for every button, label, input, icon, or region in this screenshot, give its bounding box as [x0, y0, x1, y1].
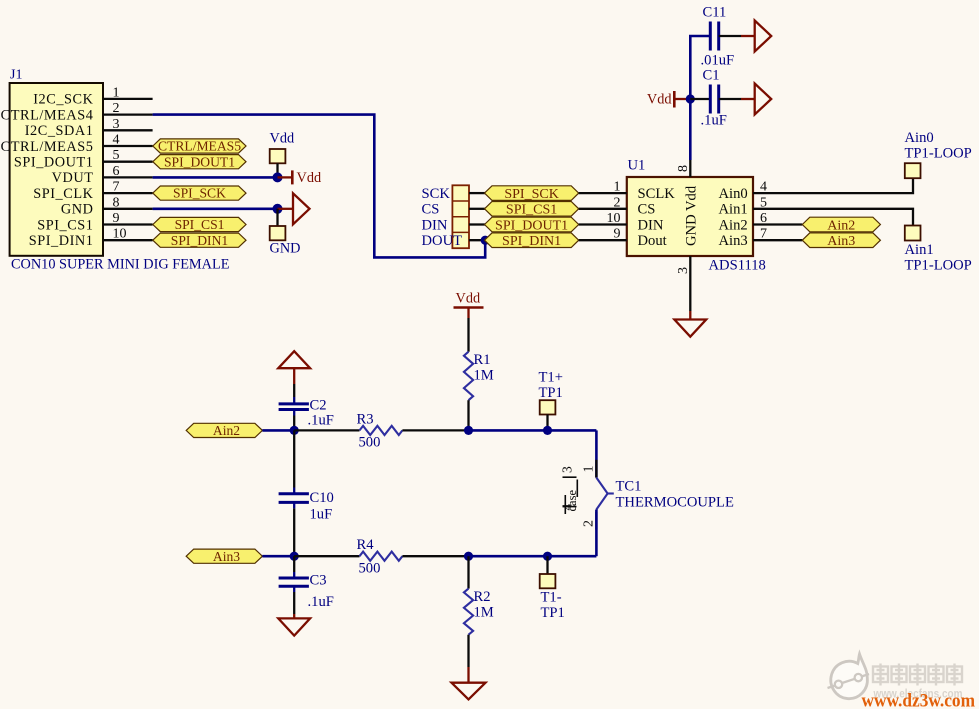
thermocouple TC1 pin1 lead	[595, 460, 597, 478]
net label Ain2 (U1 side)	[802, 217, 880, 232]
svg-text:Ain3: Ain3	[719, 233, 748, 249]
svg-text:Vdd: Vdd	[456, 291, 481, 307]
wire J1 pin8 to GND junction	[153, 208, 278, 211]
svg-text:TP1-LOOP: TP1-LOOP	[905, 146, 972, 162]
svg-text:2: 2	[113, 101, 120, 116]
svg-text:SPI_DIN1: SPI_DIN1	[171, 233, 228, 248]
wire C1 to power arrow	[719, 98, 741, 100]
resistor R2	[464, 589, 473, 635]
power port GND arrow	[278, 208, 294, 210]
thermocouple TC1 right leg top	[595, 430, 598, 477]
svg-text:T1+: T1+	[539, 370, 563, 386]
svg-text:Ain1: Ain1	[905, 242, 934, 258]
power arrow right of C1	[755, 84, 772, 115]
wire test point to junction	[276, 163, 278, 177]
op-amp U1 body	[627, 177, 753, 256]
svg-text:SPI_DIN1: SPI_DIN1	[502, 234, 561, 249]
wire Ain2 junction down to C10	[293, 430, 295, 487]
svg-text:1: 1	[582, 466, 597, 473]
connector J1 pin 1 lead	[103, 98, 153, 100]
wire arrow to C2	[293, 368, 295, 384]
capacitor C10	[279, 492, 309, 495]
svg-text:3: 3	[676, 267, 691, 274]
wire port cell to net label	[469, 223, 485, 225]
svg-text:1: 1	[113, 85, 120, 100]
wire junction to R3	[294, 429, 359, 431]
wire junction to R2	[467, 556, 469, 588]
svg-text:SPI_DOUT1: SPI_DOUT1	[14, 155, 94, 171]
svg-text:Ain0: Ain0	[719, 186, 748, 202]
capacitor C11	[709, 22, 712, 51]
test point T1- square	[540, 574, 556, 588]
svg-text:DIN: DIN	[638, 217, 664, 233]
svg-text:C3: C3	[310, 573, 327, 589]
U1 pin 8 lead	[689, 160, 691, 177]
svg-text:Vdd: Vdd	[297, 170, 322, 186]
connector J1 pin 2 lead	[103, 113, 153, 115]
connector J1 pin 4 lead	[103, 145, 153, 147]
svg-text:DIN: DIN	[422, 217, 448, 233]
net label CTRL/MEAS5 (J1 side)	[153, 139, 246, 153]
wire U1 pin4 to TP Ain0	[753, 178, 913, 193]
svg-text:5: 5	[113, 148, 120, 163]
connector J1 pin 10 lead	[103, 239, 153, 241]
wire C2 to Ain2 junction	[293, 410, 295, 416]
wire port cell to net label	[469, 208, 485, 210]
svg-text:SPI_DOUT1: SPI_DOUT1	[164, 154, 235, 169]
capacitor C2	[279, 402, 309, 405]
wire U1 pin3 to ground	[689, 311, 691, 320]
wire R3 to R1 junction	[402, 429, 468, 431]
svg-text:1M: 1M	[474, 368, 494, 384]
svg-text:T1-: T1-	[541, 590, 562, 606]
svg-text:C2: C2	[310, 398, 327, 414]
wire DOUT cell to junction	[469, 239, 485, 241]
wire port cell to net label	[469, 192, 485, 194]
svg-text:8: 8	[676, 165, 691, 172]
wire J1 pin6 to Vdd junction	[153, 176, 278, 179]
U1 pin 3 lead	[689, 256, 691, 311]
net label SPI_CS1 (J1 side)	[153, 217, 246, 231]
wire net label to U1 pin 1	[579, 192, 627, 194]
thermocouple TC1 case pin bracket 3	[563, 476, 577, 478]
wire C3 to ground arrow	[293, 586, 295, 592]
svg-text:.1uF: .1uF	[308, 594, 334, 610]
svg-text:THERMOCOUPLE: THERMOCOUPLE	[616, 495, 734, 511]
svg-text:TP1: TP1	[541, 605, 565, 621]
net label SPI_DIN1 (J1 side)	[153, 233, 246, 247]
svg-text:10: 10	[113, 227, 127, 242]
svg-text:CON10 SUPER MINI DIG FEMALE: CON10 SUPER MINI DIG FEMALE	[11, 257, 230, 273]
junction T1+	[543, 426, 552, 435]
test point T1+ square	[540, 400, 556, 414]
wire T1- junction to square	[546, 556, 548, 574]
net label SPI_DOUT1 (J1 side)	[153, 155, 246, 169]
wire T1+ square to junction	[546, 415, 548, 431]
svg-text:SPI_CS1: SPI_CS1	[37, 217, 93, 233]
wire Ain3 label to junction	[262, 555, 294, 558]
svg-text:DOUT: DOUT	[422, 233, 463, 249]
svg-text:GND Vdd: GND Vdd	[684, 185, 700, 246]
svg-text:SCLK: SCLK	[638, 186, 676, 202]
junction at J1 pin8 GND	[273, 204, 283, 214]
svg-text:C10: C10	[310, 490, 334, 506]
connector J1 pin 7 lead	[103, 192, 153, 194]
wire C10 to Ain3 junction	[293, 502, 295, 508]
svg-text:Vdd: Vdd	[270, 131, 295, 147]
wire R1 to row junction	[467, 400, 469, 430]
svg-text:SPI_CS1: SPI_CS1	[506, 203, 557, 218]
ground arrow below R2	[452, 683, 486, 700]
connector J1 body	[10, 83, 103, 256]
svg-text:TC1: TC1	[616, 479, 642, 495]
test point TP1-LOOP Ain1 square	[905, 226, 921, 241]
svg-text:1uF: 1uF	[310, 507, 333, 523]
net label SPI_SCK (U1 side)	[485, 186, 579, 201]
svg-text:SPI_DOUT1: SPI_DOUT1	[495, 218, 568, 233]
svg-text:Dout: Dout	[638, 233, 667, 249]
svg-text:500: 500	[359, 561, 381, 577]
svg-text:SPI_SCK: SPI_SCK	[173, 186, 226, 201]
thermocouple TC1 case pin bracket 4	[563, 506, 577, 508]
wire Ain2 label to junction	[262, 429, 294, 432]
wire R4 to R2 junction	[402, 555, 468, 557]
svg-text:SCK: SCK	[422, 186, 451, 202]
svg-text:Ain3: Ain3	[827, 234, 855, 249]
svg-text:SPI_SCK: SPI_SCK	[504, 187, 558, 202]
connector J1 pin 5 lead	[103, 161, 153, 163]
svg-text:J1: J1	[10, 68, 22, 83]
svg-text:I2C_SCK: I2C_SCK	[33, 92, 93, 108]
svg-text:Ain2: Ain2	[827, 218, 855, 233]
svg-text:C1: C1	[703, 68, 720, 84]
svg-text:1M: 1M	[474, 605, 494, 621]
svg-text:ADS1118: ADS1118	[709, 258, 766, 274]
svg-text:.1uF: .1uF	[308, 413, 334, 429]
test point square above Vdd junction	[270, 149, 286, 163]
connector J1 pin 6 lead	[103, 176, 153, 178]
svg-text:CTRL/MEAS5: CTRL/MEAS5	[1, 139, 94, 155]
thermocouple TC1 pin2 lead	[595, 512, 597, 530]
resistor R3	[360, 426, 403, 435]
wire net label to U1 pin 2	[579, 208, 627, 210]
svg-text:500: 500	[359, 435, 381, 451]
svg-text:C11: C11	[703, 5, 727, 21]
junction R4/R2	[464, 552, 473, 561]
capacitor C1	[709, 85, 712, 114]
junction at J1 pin6 Vdd	[273, 172, 283, 182]
svg-text:GND: GND	[61, 202, 94, 218]
svg-text:www.dz3w.com: www.dz3w.com	[862, 692, 976, 709]
port block SCK/CS/DIN/DOUT body	[452, 185, 469, 248]
svg-text:CTRL/MEAS4: CTRL/MEAS4	[1, 107, 94, 123]
svg-text:CTRL/MEAS5: CTRL/MEAS5	[158, 139, 241, 154]
svg-text:TP1-LOOP: TP1-LOOP	[905, 258, 972, 274]
wire Ain3 junction to C3	[293, 556, 295, 572]
junction at DOUT / SPI_DIN1	[481, 236, 490, 245]
svg-text:.01uF: .01uF	[701, 53, 735, 69]
svg-text:Ain3: Ain3	[213, 549, 240, 564]
net label SPI_DIN1 (U1 side)	[485, 233, 579, 248]
svg-text:I2C_SDA1: I2C_SDA1	[25, 123, 94, 139]
svg-text:9: 9	[113, 211, 120, 226]
svg-text:3: 3	[113, 117, 120, 132]
net label Ain3 (U1 side)	[802, 233, 880, 248]
wire U1 pin5 to TP Ain1	[753, 209, 913, 226]
svg-text:CS: CS	[638, 202, 656, 218]
wire net label to U1 pin 10	[579, 223, 627, 225]
connector J1 pin 9 lead	[103, 223, 153, 225]
resistor R1	[464, 352, 473, 401]
wire R2 to ground	[467, 635, 469, 667]
wire C11 to power arrow	[719, 35, 741, 37]
net label SPI_SCK (J1 side)	[153, 186, 246, 200]
wire junction to GND test point	[276, 209, 278, 226]
svg-text:Vdd: Vdd	[647, 92, 672, 108]
svg-text:R3: R3	[357, 412, 374, 428]
capacitor C3	[279, 577, 309, 580]
svg-text:SPI_CS1: SPI_CS1	[175, 217, 225, 232]
wire junction to C1	[690, 98, 710, 100]
svg-text:3: 3	[560, 466, 575, 473]
ground symbol below U1	[674, 320, 706, 337]
svg-text:TP1: TP1	[539, 385, 563, 401]
wire U1 pin6 to Ain2 label	[753, 223, 802, 225]
net label SPI_DOUT1 (U1 side)	[485, 217, 579, 232]
svg-text:GND: GND	[270, 241, 301, 257]
wire top rail corner to C11	[690, 36, 710, 160]
svg-text:6: 6	[113, 164, 120, 179]
svg-text:CS: CS	[422, 202, 440, 218]
wire R2 junction to T1- junction	[469, 555, 548, 558]
junction R1/R3	[464, 426, 473, 435]
wire T1- junction to TC1	[548, 555, 597, 558]
net label SPI_CS1 (U1 side)	[485, 202, 579, 217]
svg-text:7: 7	[113, 180, 120, 195]
svg-text:8: 8	[113, 195, 120, 210]
thermocouple TC1 right leg bottom	[595, 510, 598, 557]
junction C1/C11/Vdd	[686, 94, 695, 103]
svg-text:Ain2: Ain2	[213, 423, 240, 438]
wire R1 junction to T1+ junction	[469, 429, 548, 432]
resistor R4	[360, 552, 403, 561]
svg-text:Ain1: Ain1	[719, 202, 748, 218]
watermark logo and site text	[828, 654, 976, 709]
svg-text:2: 2	[582, 520, 597, 527]
ground arrow below C3	[278, 618, 310, 635]
wire U1 pin7 to Ain3 label	[753, 239, 802, 241]
net label Ain3 (filter side)	[186, 549, 262, 563]
svg-text:.1uF: .1uF	[701, 113, 727, 129]
svg-text:4: 4	[113, 133, 120, 148]
svg-text:Ain0: Ain0	[905, 130, 934, 146]
svg-text:R2: R2	[474, 589, 491, 605]
junction Ain3/C10/C3	[290, 552, 299, 561]
svg-text:R4: R4	[357, 537, 375, 553]
connector J1 pin 8 lead	[103, 208, 153, 210]
svg-text:U1: U1	[628, 158, 646, 174]
connector J1 pin 3 lead	[103, 129, 153, 131]
svg-text:R1: R1	[474, 352, 491, 368]
thermocouple TC1 chevron	[596, 478, 607, 510]
svg-text:VDUT: VDUT	[52, 170, 94, 186]
junction Ain2/C2/C10	[290, 426, 299, 435]
wire T1+ junction to TC1	[548, 429, 597, 432]
test point square below GND junction	[270, 226, 286, 240]
power port Vdd bar at pin6	[278, 176, 293, 178]
wire net label to U1 pin 9	[579, 239, 627, 241]
wire junction to R4	[294, 555, 359, 557]
wire CTRL/MEAS4 net from J1 pin2 to DOUT junction	[153, 115, 486, 258]
svg-text:SPI_CLK: SPI_CLK	[33, 186, 93, 202]
svg-text:Ain2: Ain2	[719, 217, 748, 233]
test point TP1-LOOP Ain0 square	[905, 163, 921, 178]
net label Ain2 (filter side)	[186, 423, 262, 437]
power arrow above C2	[278, 351, 310, 368]
junction T1-	[543, 552, 552, 561]
svg-text:SPI_DIN1: SPI_DIN1	[29, 233, 94, 249]
wire Vdd to R1	[467, 318, 469, 352]
power arrow right of C11	[755, 21, 772, 52]
